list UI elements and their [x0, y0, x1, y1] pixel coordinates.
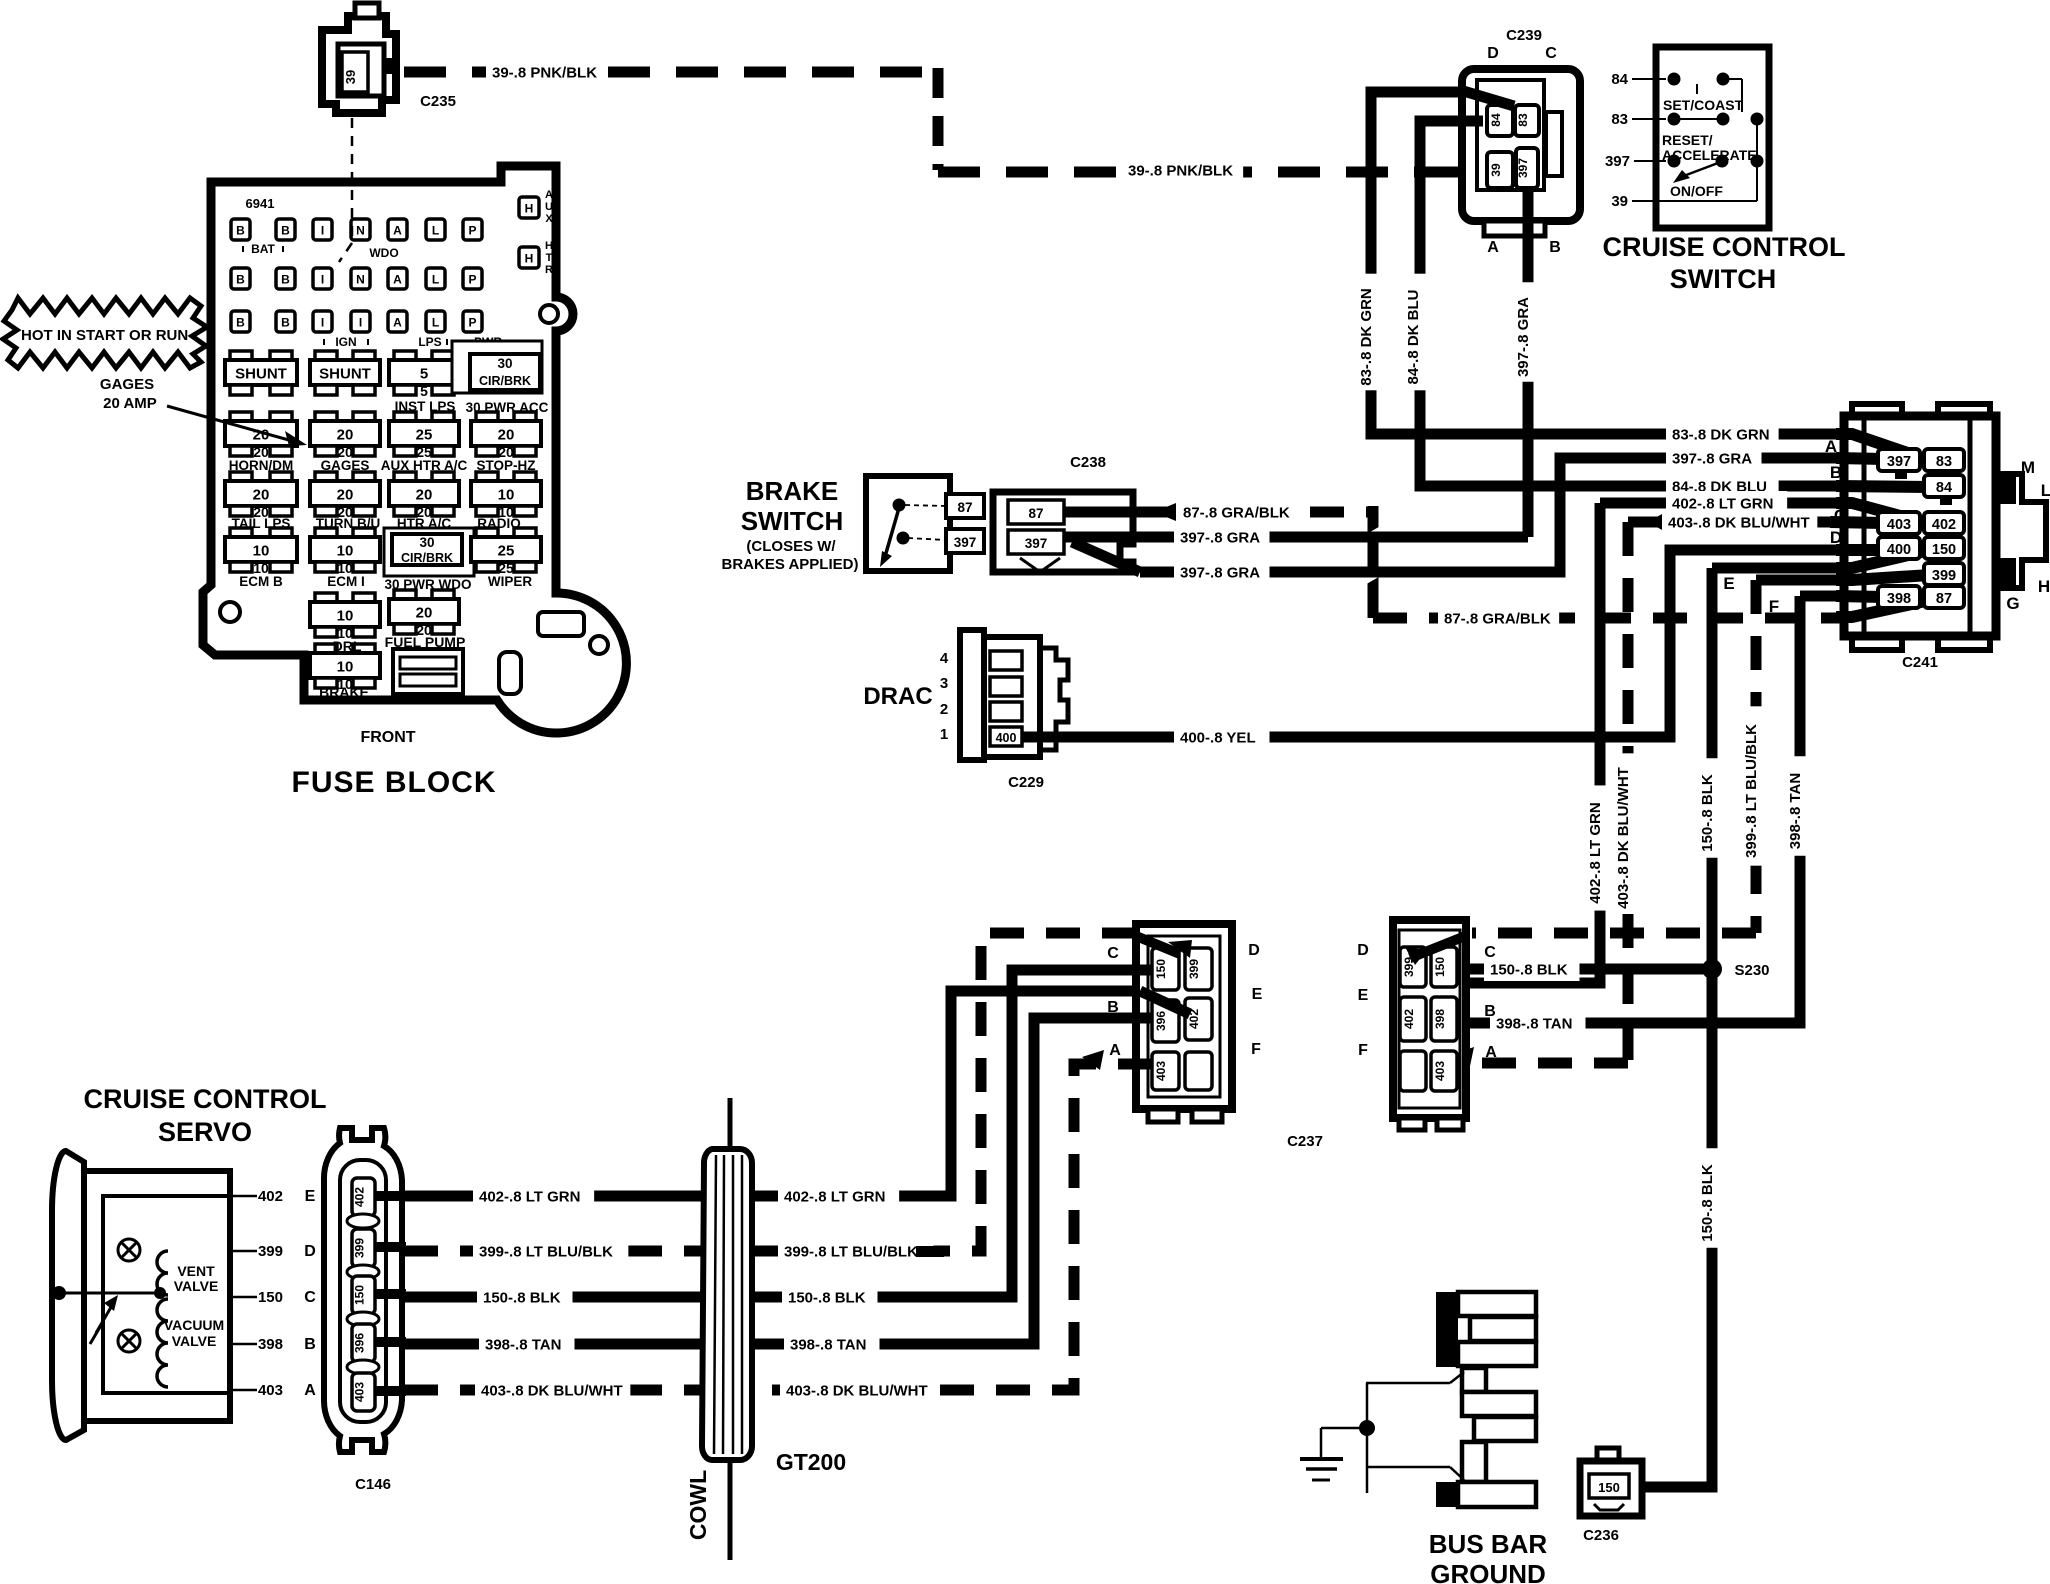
wire label 150-.8 BLK (left): [477, 1285, 573, 1309]
svg-text:398: 398: [1433, 1009, 1447, 1029]
terminal 83 (C241): [1924, 449, 1964, 471]
terminal 150 (C146): [352, 1276, 375, 1314]
terminal 403 (C146): [352, 1373, 375, 1411]
svg-text:C241: C241: [1902, 654, 1938, 671]
svg-text:GAGES: GAGES: [321, 458, 370, 473]
terminal 403 (C241): [1878, 512, 1920, 534]
wire label 403-.8 DK BLU/WHT (at GT200 right): [780, 1378, 935, 1402]
fuse 25 AUX HTR A/C: [394, 412, 416, 422]
terminal 402 (C237 right): [1400, 997, 1426, 1041]
svg-text:30: 30: [497, 356, 512, 371]
svg-text:H: H: [525, 252, 534, 266]
svg-text:E: E: [1358, 987, 1369, 1004]
wire 398-.8 TAN (C237 left B to GT200): [752, 1018, 1152, 1344]
wire label 83-.8 DK GRN vertical: [1360, 274, 1382, 391]
svg-text:C: C: [1834, 506, 1846, 525]
svg-text:10: 10: [498, 487, 515, 504]
svg-text:399-.8 LT BLU/BLK: 399-.8 LT BLU/BLK: [479, 1244, 613, 1261]
brake switch box: [866, 476, 950, 571]
brake switch terminal 397: [946, 529, 984, 553]
wire 403-.8 DK BLU/WHT (C241-D to C237): [1448, 522, 1884, 1066]
terminal 39 (C239): [1487, 152, 1513, 188]
fuse 20 GAGES: [315, 412, 337, 422]
svg-text:C: C: [1107, 945, 1119, 962]
svg-text:150: 150: [1932, 542, 1956, 558]
svg-text:25: 25: [416, 427, 433, 444]
fuse 10 ECM I: [315, 528, 337, 538]
label BUS BAR GROUND: [1429, 1529, 1548, 1584]
DRAC pin numbers 4 3 2 1: [940, 650, 949, 743]
svg-text:83: 83: [1516, 113, 1530, 127]
svg-text:CIR/BRK: CIR/BRK: [401, 551, 453, 565]
circuit breaker 30 CIR/BRK (PWR WDO): [384, 528, 474, 576]
svg-text:L: L: [2041, 481, 2050, 500]
terminal 150 (C236): [1589, 1474, 1629, 1498]
wire 402-.8 LT GRN (C237 left E to GT200): [752, 991, 1190, 1196]
svg-text:COWL: COWL: [685, 1470, 711, 1540]
svg-text:150-.8 BLK: 150-.8 BLK: [1699, 1164, 1716, 1242]
wire 84-.8 DK BLU (C239-C to C241): [1420, 121, 1930, 486]
wire label 150-.8 BLK (vert lower): [1701, 1148, 1723, 1248]
connector C237 right half: [1393, 920, 1466, 1130]
svg-text:5: 5: [420, 366, 428, 383]
svg-text:402-.8 LT GRN: 402-.8 LT GRN: [479, 1189, 580, 1206]
svg-text:GT200: GT200: [776, 1449, 846, 1475]
svg-text:INST LPS: INST LPS: [395, 399, 456, 414]
wire label 399-.8 LT BLU/BLK (left): [473, 1239, 628, 1263]
svg-text:397-.8 GRA: 397-.8 GRA: [1672, 451, 1752, 468]
pin letters C239: [1487, 45, 1561, 256]
svg-text:1: 1: [940, 726, 948, 743]
svg-text:84: 84: [1936, 480, 1952, 496]
svg-text:402: 402: [258, 1188, 283, 1205]
svg-text:397: 397: [1605, 153, 1630, 170]
svg-text:39: 39: [1489, 163, 1503, 177]
svg-text:H: H: [545, 240, 553, 252]
svg-text:VALVE: VALVE: [172, 1333, 217, 1349]
svg-text:C238: C238: [1070, 454, 1106, 471]
svg-text:WDO: WDO: [369, 246, 398, 260]
svg-text:39-.8 PNK/BLK: 39-.8 PNK/BLK: [1128, 163, 1233, 180]
svg-text:83: 83: [1936, 454, 1952, 470]
terminal 83 (C239): [1515, 105, 1539, 136]
svg-text:150: 150: [353, 1285, 367, 1305]
bus bar ground comb: [1436, 1292, 1536, 1507]
wire label 39-.8 PNK/BLK (right): [1122, 158, 1243, 182]
svg-text:T: T: [546, 252, 553, 264]
terminal 398 (C237 left): [1152, 1000, 1179, 1042]
svg-text:398: 398: [1887, 591, 1911, 607]
svg-text:398-.8 TAN: 398-.8 TAN: [1787, 773, 1804, 849]
svg-text:399-.8 LT BLU/BLK: 399-.8 LT BLU/BLK: [784, 1244, 918, 1261]
svg-text:400-.8 YEL: 400-.8 YEL: [1180, 730, 1256, 747]
svg-text:CRUISE CONTROL: CRUISE CONTROL: [1603, 232, 1846, 262]
svg-text:A: A: [1109, 1042, 1121, 1059]
svg-text:A: A: [393, 273, 402, 287]
connector C239: [1462, 69, 1580, 236]
svg-text:L: L: [432, 273, 439, 287]
svg-text:C236: C236: [1583, 1527, 1619, 1544]
connector C241: [1844, 404, 2046, 650]
svg-text:39: 39: [1611, 193, 1628, 210]
fuse SHUNT (BAT): [230, 351, 252, 361]
svg-text:150-.8 BLK: 150-.8 BLK: [483, 1290, 561, 1307]
svg-text:402: 402: [1402, 1009, 1416, 1029]
fuse SHUNT (IGN): [315, 351, 337, 361]
svg-text:WIPER: WIPER: [488, 574, 533, 589]
svg-text:403: 403: [353, 1382, 367, 1402]
svg-text:2: 2: [940, 701, 948, 718]
svg-text:400: 400: [1887, 542, 1911, 558]
terminal 399 (C237 left): [1185, 948, 1212, 990]
svg-text:B: B: [236, 316, 245, 330]
svg-text:150: 150: [1154, 959, 1168, 979]
svg-text:H: H: [2038, 577, 2050, 596]
terminal 84 (C239): [1487, 105, 1513, 136]
svg-text:F: F: [1251, 1041, 1261, 1058]
wire 403-.8 DK BLU/WHT (C237 left A to GT200): [752, 1050, 1152, 1390]
svg-text:LPS: LPS: [418, 335, 441, 349]
brake switch terminal 87: [946, 494, 984, 518]
wire label 39-.8 PNK/BLK (left): [486, 60, 607, 84]
svg-text:84-.8 DK BLU: 84-.8 DK BLU: [1405, 289, 1422, 384]
svg-text:A: A: [545, 189, 553, 201]
connector C146: [324, 1128, 402, 1452]
cruise control switch box: [1656, 47, 1769, 228]
svg-text:S230: S230: [1734, 962, 1769, 979]
svg-text:AUX HTR A/C: AUX HTR A/C: [381, 458, 468, 473]
terminal 398 (C237 right): [1431, 997, 1457, 1041]
svg-text:STOP-HZ: STOP-HZ: [476, 458, 535, 473]
svg-text:GAGES: GAGES: [100, 376, 154, 393]
servo vacuum valve coil: [157, 1299, 224, 1387]
svg-text:403-.8 DK BLU/WHT: 403-.8 DK BLU/WHT: [786, 1383, 928, 1400]
svg-text:402-.8 LT GRN: 402-.8 LT GRN: [1587, 802, 1604, 903]
wire 398-.8 TAN (C241 to C237): [1458, 596, 1844, 1023]
svg-text:30 PWR WDO: 30 PWR WDO: [384, 577, 471, 592]
svg-text:GROUND: GROUND: [1430, 1559, 1546, 1584]
fuse 10 DRL: [315, 593, 337, 603]
svg-text:20: 20: [337, 487, 354, 504]
svg-text:39: 39: [343, 70, 358, 84]
svg-text:B: B: [281, 273, 290, 287]
svg-text:SET/COAST: SET/COAST: [1663, 97, 1744, 113]
wire 402-.8 LT GRN (C146 E to GT200): [404, 1191, 704, 1202]
svg-text:IGN: IGN: [335, 335, 356, 349]
svg-text:SWITCH: SWITCH: [1670, 264, 1776, 294]
svg-text:D: D: [1357, 942, 1369, 959]
svg-text:87: 87: [957, 500, 972, 515]
svg-text:150: 150: [1433, 957, 1447, 977]
svg-text:30: 30: [419, 535, 434, 550]
svg-text:F: F: [1769, 597, 1779, 616]
svg-text:RESET/: RESET/: [1662, 132, 1713, 148]
wire label 403-.8 DK BLU/WHT (horiz): [1648, 510, 1817, 534]
svg-text:20: 20: [416, 605, 433, 622]
cruise switch pin 397: [1605, 153, 1666, 170]
svg-text:TAIL LPS: TAIL LPS: [232, 516, 291, 531]
terminal 402 (C146): [352, 1178, 375, 1216]
wire label 83-.8 DK GRN horizontal: [1666, 422, 1779, 446]
cruise switch pin 83: [1611, 111, 1666, 128]
svg-text:397-.8 GRA: 397-.8 GRA: [1180, 565, 1260, 582]
svg-text:10: 10: [253, 543, 270, 560]
circuit breaker 30 CIR/BRK (PWR): [452, 341, 542, 393]
svg-text:B: B: [1830, 463, 1842, 482]
label CRUISE CONTROL SERVO: [84, 1084, 327, 1147]
C237 left pin letters: [1107, 942, 1262, 1059]
svg-text:10: 10: [337, 543, 354, 560]
svg-text:25: 25: [498, 543, 515, 560]
svg-text:I: I: [359, 316, 362, 330]
connector C235: [322, 3, 398, 113]
svg-text:RADIO: RADIO: [477, 516, 521, 531]
svg-text:L: L: [432, 224, 439, 238]
svg-text:SHUNT: SHUNT: [235, 366, 287, 383]
connector C237 left half: [1136, 924, 1232, 1122]
servo solenoid symbols: [118, 1239, 140, 1352]
svg-text:84: 84: [1489, 113, 1503, 127]
cruise switch contacts RESET/ACCELERATE: [1662, 113, 1764, 202]
svg-text:150: 150: [1598, 1480, 1620, 1495]
svg-text:83-.8 DK GRN: 83-.8 DK GRN: [1672, 427, 1770, 444]
svg-text:SWITCH: SWITCH: [741, 506, 844, 536]
wire label 402-.8 LT GRN (horiz): [1666, 491, 1787, 515]
wire label 402-.8 LT GRN (vert): [1589, 785, 1611, 910]
C237 right pin letters: [1357, 942, 1497, 1061]
svg-text:N: N: [356, 273, 365, 287]
svg-text:10: 10: [337, 659, 354, 676]
wire label 397-.8 GRA (upper): [1174, 525, 1270, 549]
svg-text:150: 150: [258, 1289, 283, 1306]
fuse 5 INST LPS: [394, 351, 416, 361]
wire 399-.8 LT BLU/BLK (C146 D to GT200): [404, 1246, 704, 1257]
cruise switch contacts ON/OFF: [1668, 155, 1764, 202]
svg-text:BAT: BAT: [251, 242, 275, 256]
svg-text:E: E: [1252, 986, 1263, 1003]
svg-text:396: 396: [353, 1333, 367, 1353]
svg-text:39-.8 PNK/BLK: 39-.8 PNK/BLK: [492, 65, 597, 82]
svg-text:397: 397: [1025, 536, 1048, 551]
wire label 84-.8 DK BLU vertical: [1407, 274, 1429, 391]
fuse 10 BRAKE: [315, 644, 337, 654]
wire label 399-.8 LT BLU/BLK (at GT200 right): [778, 1239, 944, 1263]
fuse 20 TURN B/U: [315, 472, 337, 482]
svg-text:87: 87: [1936, 591, 1952, 607]
terminal 87 (C238): [1008, 500, 1064, 524]
svg-text:87-.8 GRA/BLK: 87-.8 GRA/BLK: [1444, 611, 1551, 628]
svg-text:E: E: [1723, 574, 1734, 593]
terminal 398 (C241): [1878, 586, 1920, 608]
terminal 397 (C239): [1516, 148, 1538, 188]
svg-text:FRONT: FRONT: [360, 729, 415, 746]
svg-text:BUS BAR: BUS BAR: [1429, 1529, 1548, 1559]
svg-text:HOT IN START OR RUN: HOT IN START OR RUN: [21, 327, 188, 344]
terminal 399 (C241): [1924, 563, 1964, 585]
svg-text:150-.8 BLK: 150-.8 BLK: [1490, 962, 1568, 979]
svg-text:D: D: [1248, 942, 1260, 959]
terminal 399 (C146): [352, 1229, 375, 1267]
C241 terminals: [1878, 449, 1964, 608]
svg-text:87-.8 GRA/BLK: 87-.8 GRA/BLK: [1183, 505, 1290, 522]
svg-text:BRAKE: BRAKE: [319, 684, 369, 700]
svg-text:399: 399: [353, 1238, 367, 1258]
wire 399-.8 LT BLU/BLK (C237 left D to GT200): [752, 933, 1136, 1251]
svg-text:20: 20: [253, 487, 270, 504]
wire label 398-.8 TAN (at C237): [1490, 1011, 1586, 1035]
servo pin leaders and numbers: [230, 1188, 316, 1399]
svg-text:DRL: DRL: [333, 638, 362, 654]
wire 150-.8 BLK (C237-right C to S230): [1466, 964, 1712, 975]
svg-text:ON/OFF: ON/OFF: [1670, 183, 1723, 199]
terminal 150 (C237 left): [1152, 948, 1179, 990]
connector C229: [960, 630, 1068, 760]
svg-text:G: G: [2006, 594, 2019, 613]
svg-text:B: B: [236, 224, 245, 238]
wire label 84-.8 DK BLU horizontal: [1666, 474, 1779, 498]
svg-text:403: 403: [258, 1382, 283, 1399]
svg-text:VENT: VENT: [177, 1263, 215, 1279]
svg-text:P: P: [468, 316, 476, 330]
wire label 397-.8 GRA vertical: [1517, 282, 1539, 382]
svg-text:20: 20: [337, 427, 354, 444]
connector C238: [993, 492, 1133, 572]
svg-text:B: B: [1549, 239, 1561, 256]
svg-text:I: I: [321, 273, 324, 287]
terminal 403 (C237 left): [1152, 1052, 1179, 1090]
label BRAKE SWITCH (CLOSES W/ BRAKES APPLIED): [722, 476, 859, 573]
svg-text:VACUUM: VACUUM: [164, 1317, 224, 1333]
wire label 403-.8 DK BLU/WHT (vert): [1617, 753, 1639, 912]
svg-text:402: 402: [1932, 517, 1956, 533]
svg-text:BRAKE: BRAKE: [746, 476, 838, 506]
svg-text:398: 398: [258, 1336, 283, 1353]
terminal 397 (C238): [1008, 530, 1064, 554]
svg-text:399: 399: [1932, 568, 1956, 584]
svg-text:397: 397: [954, 535, 977, 550]
fuse block AUX/HTR H terminals: [519, 189, 553, 276]
svg-text:403-.8 DK BLU/WHT: 403-.8 DK BLU/WHT: [1668, 515, 1810, 532]
svg-text:A: A: [304, 1382, 316, 1399]
wire 150-.8 BLK (C237 left C to GT200): [752, 970, 1152, 1297]
terminal 150 (C237 right): [1431, 947, 1457, 987]
svg-text:L: L: [432, 316, 439, 330]
svg-text:ECM I: ECM I: [327, 574, 365, 589]
fuse 20 HTR A/C: [394, 472, 416, 482]
svg-text:HORN/DM: HORN/DM: [229, 458, 294, 473]
fuel pump relay element: [393, 649, 463, 694]
svg-text:87: 87: [1028, 506, 1043, 521]
svg-text:20: 20: [416, 487, 433, 504]
svg-text:84: 84: [1611, 71, 1628, 88]
svg-text:399-.8 LT BLU/BLK: 399-.8 LT BLU/BLK: [1743, 724, 1760, 858]
terminal 399 (C237 right): [1400, 947, 1426, 987]
svg-text:VALVE: VALVE: [174, 1278, 219, 1294]
svg-text:4: 4: [940, 650, 949, 667]
svg-text:B: B: [304, 1336, 316, 1353]
svg-text:C: C: [1484, 944, 1496, 961]
splice S230: [1702, 959, 1770, 979]
callout GAGES 20 AMP with arrow: [100, 376, 307, 446]
svg-text:X: X: [545, 213, 553, 225]
svg-text:399: 399: [258, 1243, 283, 1260]
svg-text:A: A: [1487, 239, 1499, 256]
svg-text:C146: C146: [355, 1476, 391, 1493]
svg-text:C: C: [304, 1289, 316, 1306]
terminal 400 (C241): [1878, 537, 1920, 559]
wire 403-.8 DK BLU/WHT (C146 A to GT200): [404, 1385, 704, 1396]
svg-text:403: 403: [1433, 1061, 1447, 1081]
cruise switch pin 39: [1611, 193, 1680, 210]
terminal 150 (C241): [1924, 537, 1964, 559]
svg-text:A: A: [393, 316, 402, 330]
terminal 400 (C229): [990, 727, 1022, 746]
svg-text:3: 3: [940, 675, 948, 692]
wire 39-.8 PNK/BLK from C235 to C239: [404, 68, 1490, 172]
svg-text:SHUNT: SHUNT: [319, 366, 371, 383]
wire label 397-.8 GRA (at C241): [1666, 446, 1762, 470]
wire 83-.8 DK GRN (C239-D to C241): [1371, 90, 1844, 434]
svg-text:398-.8 TAN: 398-.8 TAN: [1496, 1016, 1572, 1033]
svg-text:I: I: [321, 224, 324, 238]
svg-text:398-.8 TAN: 398-.8 TAN: [790, 1337, 866, 1354]
svg-text:400: 400: [996, 731, 1017, 745]
wire label 398-.8 TAN (vert): [1789, 756, 1811, 856]
svg-text:A: A: [1485, 1044, 1497, 1061]
svg-text:397: 397: [1516, 158, 1530, 178]
C241 pin letters: [1723, 437, 2050, 616]
wire label 400-.8 YEL: [1174, 725, 1270, 749]
svg-text:M: M: [2021, 458, 2035, 477]
svg-text:C239: C239: [1506, 27, 1542, 44]
wire 87-.8 GRA/BLK (C238 to C241-F): [1064, 506, 1844, 618]
wire label 398-.8 TAN (left): [479, 1332, 575, 1356]
label CRUISE CONTROL SWITCH: [1603, 232, 1846, 294]
svg-text:C229: C229: [1008, 774, 1044, 791]
svg-text:5: 5: [420, 383, 428, 399]
fuse 20 TAIL LPS: [230, 472, 252, 482]
svg-text:397-.8 GRA: 397-.8 GRA: [1515, 297, 1532, 377]
svg-text:398-.8 TAN: 398-.8 TAN: [485, 1337, 561, 1354]
svg-text:B: B: [1484, 1003, 1496, 1020]
wire 397-.8 GRA (C239-B down to brake switch feed): [1523, 186, 1534, 537]
svg-text:D: D: [1487, 45, 1499, 62]
svg-text:B: B: [236, 273, 245, 287]
wire label 403-.8 DK BLU/WHT (left): [475, 1378, 630, 1402]
svg-text:C: C: [1545, 45, 1557, 62]
fuse 20 HORN/DM: [230, 412, 252, 422]
svg-text:D: D: [1830, 528, 1842, 547]
svg-text:150-.8 BLK: 150-.8 BLK: [788, 1290, 866, 1307]
wire 402-.8 LT GRN (C241-C to C237): [1428, 503, 1844, 1010]
wire 400-.8 YEL (C229 to C241): [1022, 550, 1882, 737]
svg-text:396: 396: [1154, 1011, 1168, 1031]
fuse 25 WIPER: [476, 528, 498, 538]
grommet GT200 / COWL line: [702, 1098, 752, 1560]
svg-text:A: A: [1825, 437, 1837, 456]
svg-text:402: 402: [353, 1187, 367, 1207]
cruise control servo body: [52, 1151, 230, 1440]
svg-text:83: 83: [1611, 111, 1628, 128]
fuse 10 ECM B: [230, 528, 252, 538]
wire label 150-.8 BLK (at C237): [1484, 957, 1580, 981]
fuse 20 STOP-HZ: [476, 412, 498, 422]
terminal 402 (C237 left): [1185, 998, 1212, 1040]
svg-text:DRAC: DRAC: [863, 683, 932, 710]
svg-text:CRUISE CONTROL: CRUISE CONTROL: [84, 1084, 327, 1114]
svg-text:20: 20: [498, 427, 515, 444]
dashed leader from C235 to fuse block: [339, 118, 352, 262]
